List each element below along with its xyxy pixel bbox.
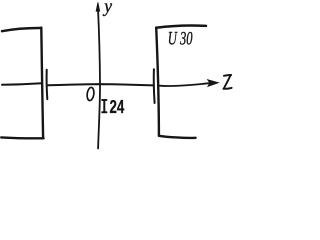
left electrode vertical wall <box>41 28 43 138</box>
capacitor plate right <box>153 69 156 103</box>
wire: Z axis center conductor <box>48 84 153 85</box>
svg-text:U 30: U 30 <box>168 29 193 49</box>
axis label Z <box>223 75 231 89</box>
right electrode top wall <box>156 26 206 28</box>
left electrode bottom wall <box>1 136 43 139</box>
wire: Z axis right segment <box>160 83 210 86</box>
arrowhead Z axis <box>208 80 219 87</box>
origin label O <box>86 87 94 101</box>
svg-text:y: y <box>102 0 112 16</box>
label U 30 <box>168 29 193 49</box>
right electrode bottom wall <box>159 136 196 138</box>
left electrode top wall <box>2 28 41 31</box>
arrowhead y axis <box>96 2 100 11</box>
svg-text:24: 24 <box>110 97 125 118</box>
wire: left feed line <box>2 83 42 84</box>
right electrode vertical wall <box>156 28 159 136</box>
axis y vertical line <box>98 9 100 149</box>
figure number I 24 <box>102 100 106 112</box>
capacitor plate left <box>46 70 49 99</box>
